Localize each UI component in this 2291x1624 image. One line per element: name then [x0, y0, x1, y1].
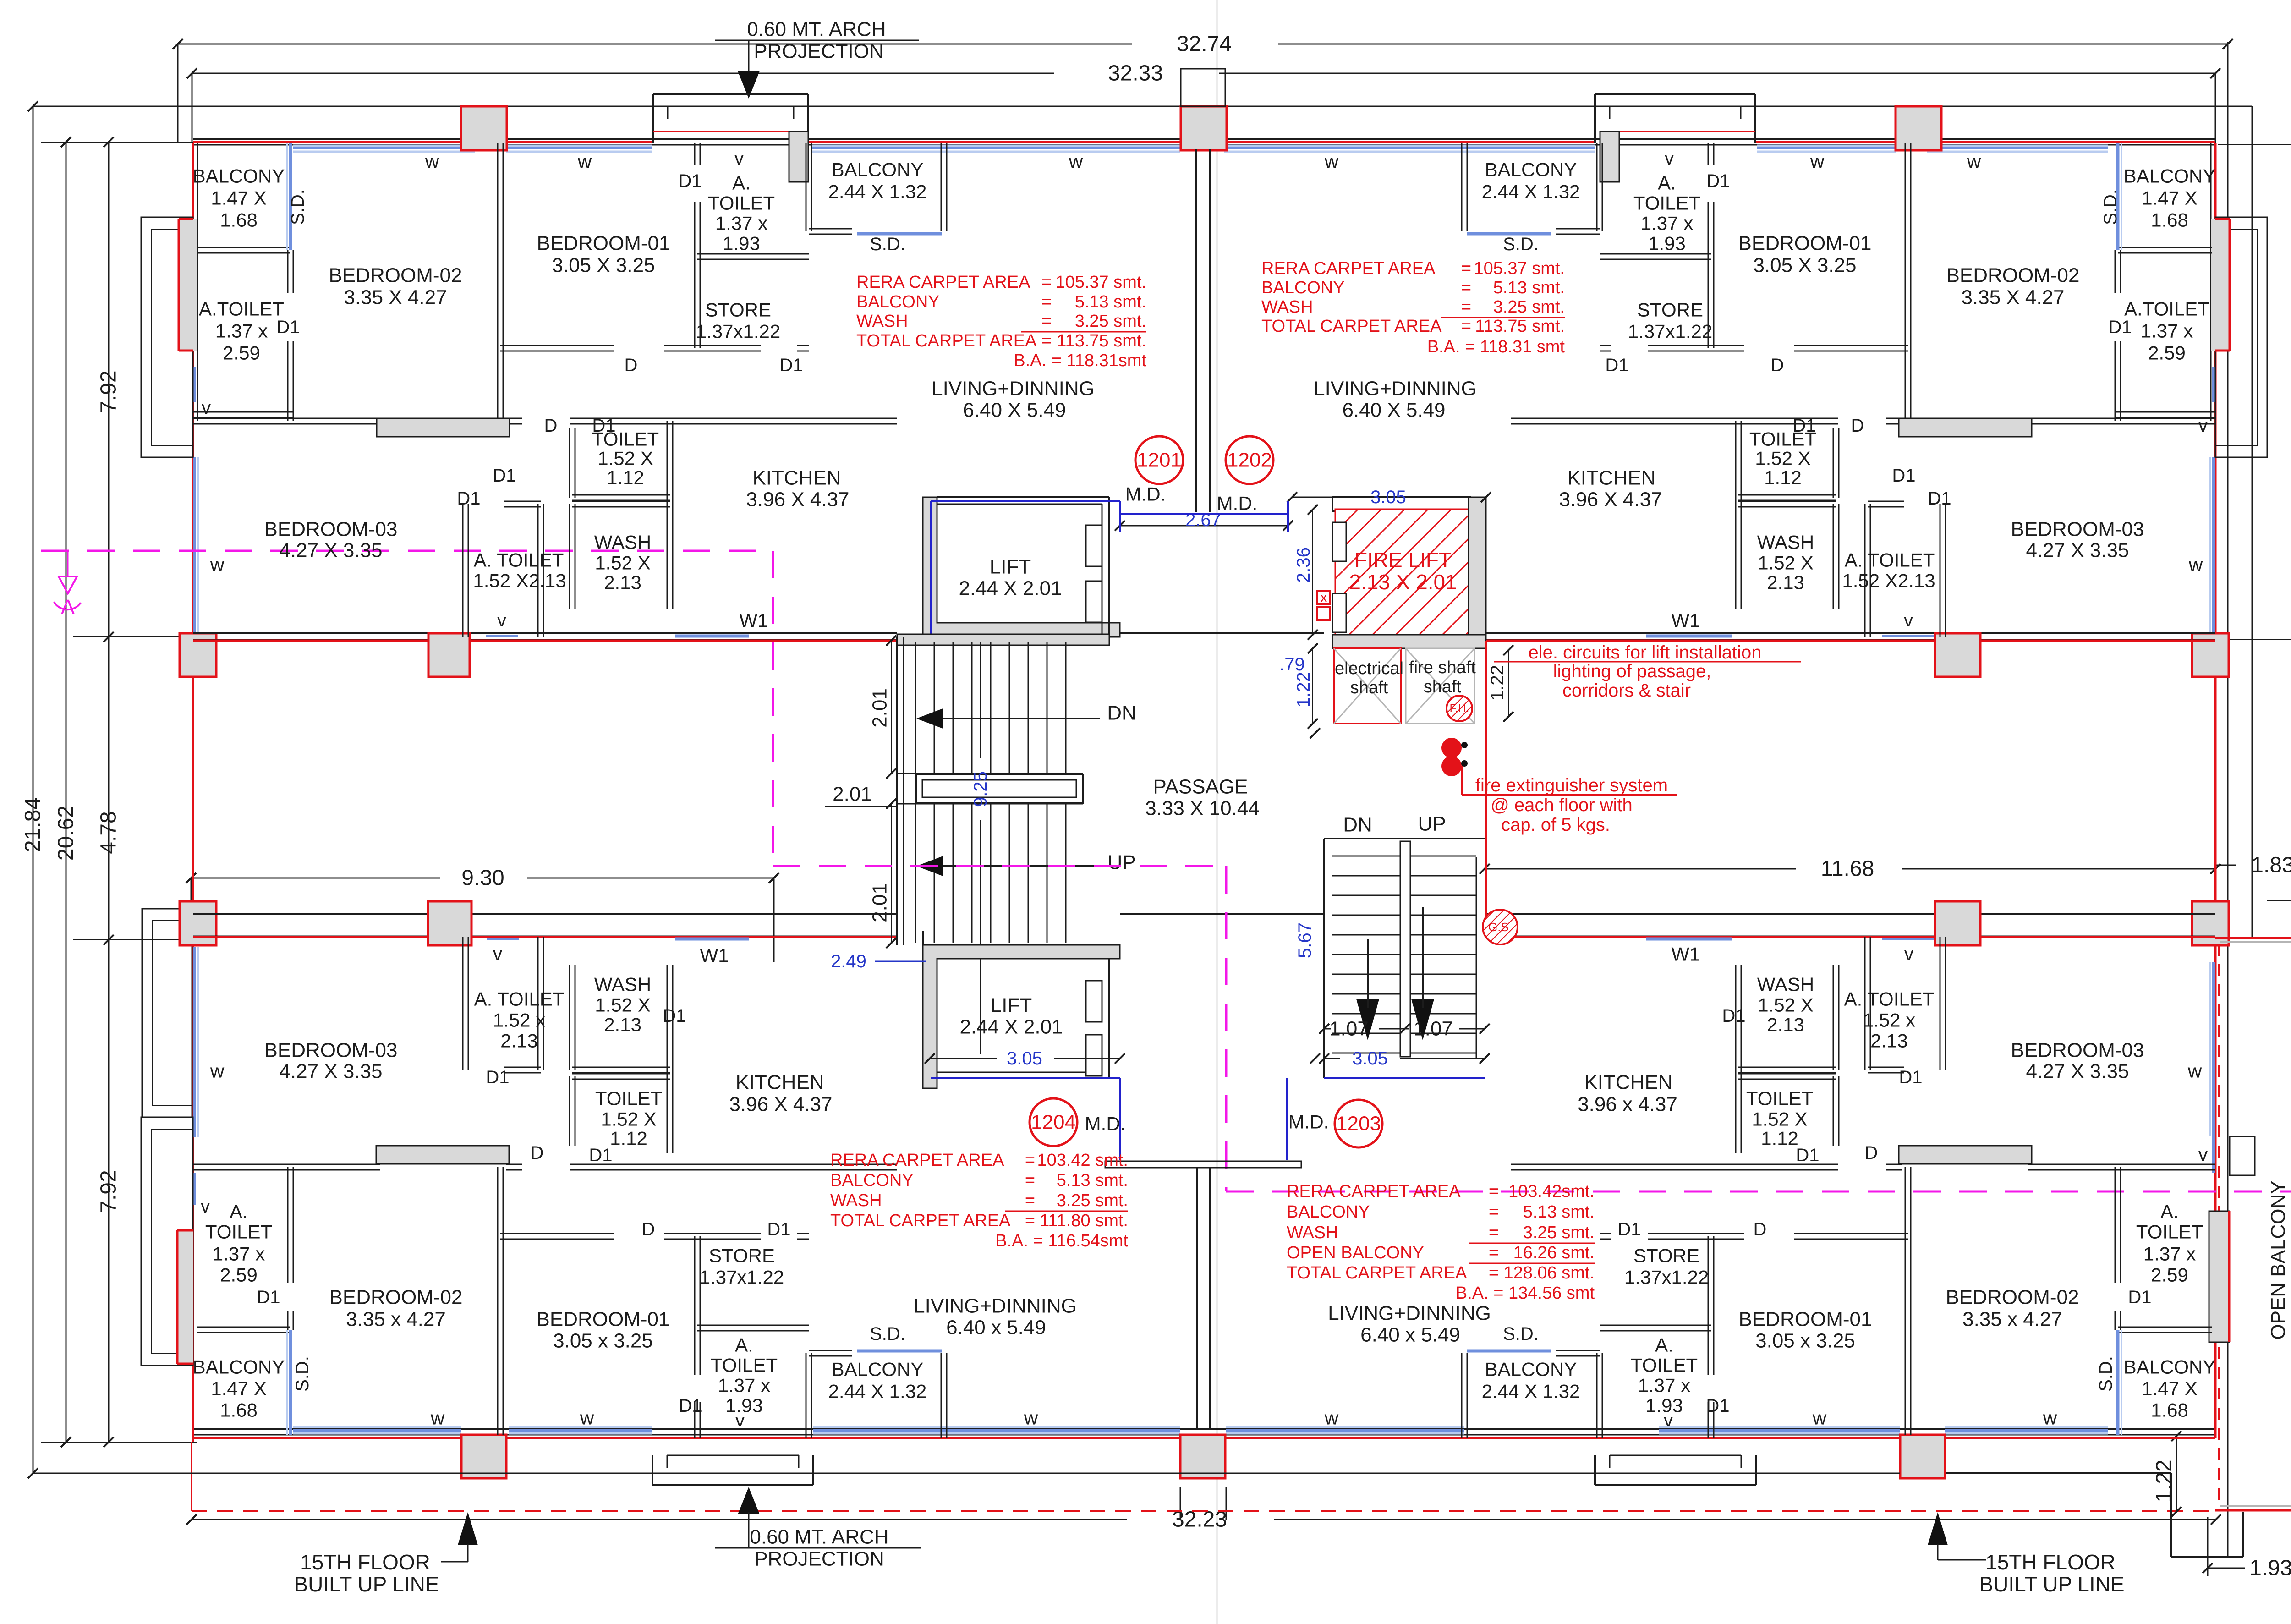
svg-text:1.37 x: 1.37 x — [2141, 320, 2193, 342]
svg-text:BEDROOM-01: BEDROOM-01 — [537, 232, 670, 255]
svg-text:3.33 X 10.44: 3.33 X 10.44 — [1145, 797, 1260, 820]
svg-text:1.68: 1.68 — [2151, 209, 2188, 231]
dim 1.93 bottom right — [2208, 1568, 2245, 1569]
svg-text:=: = — [1489, 1182, 1499, 1201]
dim 11.68 corridor-to-right-wall — [1485, 868, 1796, 870]
svg-text:w: w — [1967, 151, 1981, 172]
DN arrow upper flight — [935, 718, 1100, 719]
stepped projection box top right — [1595, 93, 1755, 95]
top passage M.D. walls blue — [1120, 513, 1288, 515]
svg-text:6.40 x 5.49: 6.40 x 5.49 — [1360, 1324, 1460, 1346]
svg-text:B.A. = 134.56 smt: B.A. = 134.56 smt — [1456, 1284, 1595, 1303]
svg-text:BALCONY: BALCONY — [2124, 165, 2216, 187]
svg-text:v: v — [201, 1196, 210, 1217]
svg-text:A.: A. — [735, 1334, 753, 1356]
svg-text:w: w — [210, 1060, 225, 1082]
svg-text:4.27 X 3.35: 4.27 X 3.35 — [279, 1060, 382, 1083]
svg-text:A.: A. — [732, 172, 751, 194]
svg-text:2.59: 2.59 — [2148, 342, 2186, 364]
svg-text:v: v — [734, 148, 744, 169]
svg-text:2.13: 2.13 — [1767, 572, 1804, 593]
svg-text:D1: D1 — [678, 171, 702, 191]
svg-text:5.13 smt.: 5.13 smt. — [1493, 278, 1565, 297]
svg-text:1.37x1.22: 1.37x1.22 — [696, 321, 781, 342]
svg-text:=: = — [1025, 1191, 1035, 1210]
svg-text:2.01: 2.01 — [869, 883, 891, 922]
svg-text:D1: D1 — [589, 1145, 612, 1165]
svg-text:15TH FLOOR: 15TH FLOOR — [300, 1550, 430, 1574]
svg-text:PROJECTION: PROJECTION — [754, 40, 884, 63]
svg-text:DN: DN — [1107, 702, 1136, 724]
svg-text:D: D — [531, 1143, 544, 1163]
right corridor columns — [2192, 633, 2229, 677]
svg-text:1.37x1.22: 1.37x1.22 — [1624, 1267, 1709, 1288]
svg-text:=: = — [1461, 259, 1471, 278]
lintel bar — [1899, 418, 2032, 437]
svg-text:D1: D1 — [2128, 1287, 2151, 1307]
svg-text:=: = — [1489, 1263, 1499, 1283]
svg-text:BEDROOM-03: BEDROOM-03 — [264, 518, 398, 541]
svg-text:3.25 smt.: 3.25 smt. — [1493, 297, 1565, 317]
svg-text:KITCHEN: KITCHEN — [752, 467, 841, 489]
svg-text:=: = — [1489, 1223, 1499, 1242]
corridor bottom wall windows — [675, 938, 749, 941]
svg-text:1.52 X2.13: 1.52 X2.13 — [1842, 570, 1935, 592]
svg-text:1.68: 1.68 — [2151, 1399, 2188, 1421]
svg-text:BALCONY: BALCONY — [832, 1359, 924, 1380]
svg-text:w: w — [577, 151, 592, 172]
svg-text:1.12: 1.12 — [607, 467, 644, 488]
svg-text:0.60 MT. ARCH: 0.60 MT. ARCH — [747, 18, 886, 41]
svg-text:D: D — [1754, 1219, 1767, 1240]
svg-text:1.52 X: 1.52 X — [1752, 1108, 1807, 1130]
svg-text:OPEN BALCONY: OPEN BALCONY — [1287, 1243, 1424, 1262]
svg-text:1.52 x: 1.52 x — [493, 1010, 545, 1031]
corridor top wall v windows — [486, 635, 518, 637]
svg-text:TOTAL CARPET AREA: TOTAL CARPET AREA — [1261, 317, 1442, 336]
svg-text:=: = — [1489, 1243, 1499, 1262]
svg-text:5.13 smt.: 5.13 smt. — [1075, 292, 1146, 312]
svg-text:11.68: 11.68 — [1821, 857, 1874, 881]
svg-text:TOILET: TOILET — [2136, 1221, 2203, 1243]
outer site border — [33, 106, 2252, 107]
svg-text:1.37 x: 1.37 x — [718, 1375, 770, 1396]
svg-text:lighting of passage,: lighting of passage, — [1553, 661, 1711, 681]
svg-text:W1: W1 — [700, 945, 729, 966]
svg-text:UP: UP — [1107, 851, 1135, 874]
svg-text:1.37 x: 1.37 x — [213, 1243, 265, 1265]
svg-text:D1: D1 — [1899, 1067, 1922, 1087]
svg-text:1.52 X2.13: 1.52 X2.13 — [473, 570, 566, 592]
section marker A left — [59, 576, 77, 593]
svg-text:RERA CARPET AREA: RERA CARPET AREA — [1261, 259, 1436, 278]
svg-text:32.74: 32.74 — [1177, 32, 1232, 56]
svg-text:B.A. = 118.31smt: B.A. = 118.31smt — [1014, 351, 1146, 370]
stepped projection box bottom left — [652, 1484, 813, 1486]
G.S. hatched circle — [1483, 910, 1518, 944]
lintel bar — [377, 418, 510, 437]
svg-text:w: w — [580, 1407, 594, 1429]
svg-text:1.68: 1.68 — [220, 209, 258, 231]
svg-text:TOILET: TOILET — [708, 192, 775, 214]
svg-text:D1: D1 — [257, 1287, 280, 1307]
svg-text:1.47 X: 1.47 X — [211, 187, 266, 209]
fire stair centre rail — [1400, 841, 1410, 1057]
svg-text:113.75 smt.: 113.75 smt. — [1057, 331, 1146, 351]
svg-text:103.42 smt.: 103.42 smt. — [1037, 1151, 1128, 1170]
svg-text:20.62: 20.62 — [54, 806, 78, 861]
svg-text:w: w — [1812, 1407, 1827, 1429]
svg-text:6.40 X 5.49: 6.40 X 5.49 — [963, 399, 1066, 422]
svg-text:RERA CARPET AREA: RERA CARPET AREA — [830, 1151, 1004, 1170]
page centre fold line — [1217, 0, 1218, 1624]
svg-text:v: v — [497, 610, 506, 631]
svg-text:5.67: 5.67 — [1295, 922, 1315, 958]
svg-text:KITCHEN: KITCHEN — [1567, 467, 1655, 489]
svg-text:113.75 smt.: 113.75 smt. — [1475, 317, 1565, 336]
svg-text:BEDROOM-02: BEDROOM-02 — [1946, 1286, 2079, 1309]
svg-text:D: D — [1865, 1143, 1878, 1163]
svg-text:S.D.: S.D. — [2100, 189, 2121, 225]
left stair chamber walls — [896, 637, 898, 945]
bottom party wall between living rooms — [1105, 1161, 1301, 1168]
svg-text:2.13: 2.13 — [604, 1014, 641, 1036]
dim 3.05 blue fire lift top — [1292, 497, 1356, 498]
UP arrow lower flight — [935, 865, 1100, 867]
svg-text:=: = — [1041, 273, 1052, 292]
vent box right wall flat 1203 — [2230, 1136, 2255, 1175]
svg-text:M.D.: M.D. — [1288, 1111, 1329, 1133]
fire lift right wall — [1469, 497, 1486, 635]
svg-text:D1: D1 — [1605, 355, 1628, 375]
lift blue outline upper — [931, 500, 1120, 502]
lift blue outline lower — [931, 1077, 1120, 1079]
flat 1203 partition walls — [1735, 965, 1737, 1153]
svg-text:BALCONY: BALCONY — [1485, 1359, 1577, 1380]
svg-text:3.35 x 4.27: 3.35 x 4.27 — [1962, 1308, 2062, 1331]
svg-text:WASH: WASH — [830, 1191, 882, 1210]
svg-text:2.13: 2.13 — [1870, 1030, 1908, 1052]
svg-text:electrical: electrical — [1335, 659, 1403, 678]
svg-text:=: = — [1041, 331, 1052, 351]
svg-text:D1: D1 — [663, 1006, 686, 1026]
svg-text:BEDROOM-02: BEDROOM-02 — [1946, 264, 2080, 287]
corridor bottom columns — [428, 901, 471, 945]
dim 2.67 blue passage top — [1120, 525, 1288, 527]
left wall windows — [193, 367, 196, 402]
dim 3.05 blue lower lift — [930, 1058, 997, 1059]
svg-text:1.22: 1.22 — [1293, 672, 1314, 708]
svg-text:F.H.: F.H. — [1450, 702, 1469, 715]
svg-text:2.44 X 1.32: 2.44 X 1.32 — [1482, 181, 1580, 203]
svg-text:1203: 1203 — [1336, 1113, 1381, 1135]
svg-text:BEDROOM-03: BEDROOM-03 — [2011, 1039, 2144, 1062]
svg-text:0.60 MT. ARCH: 0.60 MT. ARCH — [750, 1526, 888, 1548]
corridor top wall windows W1 — [675, 635, 749, 638]
svg-text:BALCONY: BALCONY — [193, 165, 285, 187]
svg-text:LIVING+DINNING: LIVING+DINNING — [1328, 1302, 1491, 1325]
upper lift door jambs — [1086, 525, 1102, 566]
lintel bar — [1899, 1146, 2032, 1164]
unit circles — [1135, 436, 1183, 484]
svg-text:16.26 smt.: 16.26 smt. — [1513, 1243, 1595, 1262]
svg-text:TOTAL CARPET AREA: TOTAL CARPET AREA — [830, 1211, 1011, 1230]
fire lift door jambs — [1332, 522, 1346, 561]
svg-text:BALCONY: BALCONY — [856, 292, 940, 312]
dim 32.23 bottom — [192, 1519, 1127, 1520]
left stair treads lower flight — [915, 804, 916, 943]
svg-text:B.A. = 118.31 smt: B.A. = 118.31 smt — [1427, 337, 1565, 357]
svg-text:v: v — [202, 398, 211, 418]
lintel bar — [376, 1146, 509, 1164]
svg-text:1204: 1204 — [1031, 1111, 1076, 1134]
right wall windows — [2212, 367, 2215, 402]
svg-text:cap. of 5 kgs.: cap. of 5 kgs. — [1501, 815, 1610, 835]
svg-text:BEDROOM-02: BEDROOM-02 — [329, 1286, 463, 1309]
svg-text:.79: .79 — [1279, 654, 1305, 675]
flat 1202 partition walls — [2118, 247, 2212, 248]
svg-text:2.44 X 1.32: 2.44 X 1.32 — [1482, 1381, 1580, 1402]
svg-text:WASH: WASH — [594, 974, 651, 995]
svg-text:A.TOILET: A.TOILET — [2124, 298, 2209, 320]
svg-text:PROJECTION: PROJECTION — [754, 1548, 884, 1570]
svg-text:=: = — [1041, 292, 1052, 312]
top party wall between living rooms — [1195, 149, 1197, 512]
red fire line right side — [1485, 641, 1487, 937]
svg-text:M.D.: M.D. — [1125, 483, 1166, 505]
svg-text:1.52 X: 1.52 X — [1755, 448, 1810, 469]
svg-text:W1: W1 — [1672, 610, 1700, 631]
svg-text:1.47 X: 1.47 X — [2142, 1378, 2197, 1399]
svg-text:2.59: 2.59 — [2151, 1264, 2188, 1286]
svg-text:w: w — [1810, 151, 1825, 172]
svg-text:1.12: 1.12 — [610, 1128, 647, 1149]
svg-text:TOILET: TOILET — [1631, 1355, 1698, 1376]
svg-text:TOTAL CARPET AREA: TOTAL CARPET AREA — [1287, 1263, 1467, 1283]
flat 1204 partition walls — [667, 965, 668, 1153]
svg-text:D1: D1 — [1617, 1219, 1641, 1240]
svg-text:3.05: 3.05 — [1007, 1048, 1042, 1069]
svg-text:3.05 X 3.25: 3.05 X 3.25 — [1753, 254, 1856, 277]
bottom wall window band — [293, 1429, 461, 1432]
svg-text:3.25 smt.: 3.25 smt. — [1075, 312, 1146, 331]
svg-text:A.: A. — [2160, 1201, 2179, 1223]
svg-text:D1: D1 — [2108, 317, 2132, 337]
corridor bottom wall (north wall of lower flats) — [193, 913, 897, 915]
svg-text:2.59: 2.59 — [223, 342, 260, 364]
svg-text:D1: D1 — [1796, 1145, 1819, 1165]
svg-text:1.52 X: 1.52 X — [1758, 994, 1813, 1016]
svg-text:KITCHEN: KITCHEN — [1584, 1071, 1672, 1094]
svg-text:D: D — [1771, 355, 1784, 375]
svg-text:x: x — [1321, 590, 1327, 605]
left wall — [192, 143, 194, 637]
fire stair blue base — [1324, 1077, 1485, 1079]
svg-text:1.07: 1.07 — [1414, 1018, 1453, 1040]
svg-text:=: = — [1025, 1171, 1035, 1190]
svg-text:M.D.: M.D. — [1085, 1113, 1126, 1135]
svg-text:BEDROOM-01: BEDROOM-01 — [537, 1308, 670, 1331]
svg-text:1.37 x: 1.37 x — [215, 320, 268, 342]
svg-text:BALCONY: BALCONY — [1261, 278, 1345, 297]
svg-text:D1: D1 — [1928, 488, 1951, 509]
A-toilet projection column right (flat 1203) — [2209, 1211, 2229, 1342]
dim 32.33 — [192, 73, 1054, 74]
svg-text:shaft: shaft — [1350, 678, 1388, 697]
svg-text:4.27 X 3.35: 4.27 X 3.35 — [2026, 1060, 2129, 1083]
dim chain left 20.62 — [66, 142, 67, 1442]
electrical shaft — [1334, 648, 1401, 724]
svg-text:3.25 smt.: 3.25 smt. — [1057, 1191, 1128, 1210]
svg-text:3.05: 3.05 — [1370, 487, 1406, 507]
svg-text:1.93: 1.93 — [2249, 1556, 2291, 1580]
svg-text:S.D.: S.D. — [292, 1356, 312, 1392]
svg-text:A. TOILET: A. TOILET — [1844, 988, 1935, 1010]
svg-text:3.35 X 4.27: 3.35 X 4.27 — [344, 286, 447, 309]
svg-text:1.37x1.22: 1.37x1.22 — [700, 1267, 784, 1288]
built up line red dashed bottom — [191, 1442, 192, 1511]
fire stair dims 1.07 — [1324, 1028, 1331, 1030]
svg-text:M.D.: M.D. — [1217, 493, 1258, 514]
svg-text:w: w — [2043, 1407, 2057, 1429]
svg-text:BEDROOM-01: BEDROOM-01 — [1738, 232, 1872, 255]
svg-text:S.D.: S.D. — [2096, 1356, 2116, 1392]
red dots fire hydrant — [1441, 738, 1462, 758]
bottom wall — [193, 1428, 2215, 1430]
svg-text:S.D.: S.D. — [288, 189, 308, 225]
svg-text:3.96 X 4.37: 3.96 X 4.37 — [746, 488, 849, 511]
svg-text:STORE: STORE — [1637, 299, 1703, 321]
svg-text:w: w — [1324, 1407, 1339, 1429]
svg-text:6.40 x 5.49: 6.40 x 5.49 — [946, 1317, 1046, 1339]
svg-text:ele. circuits for lift install: ele. circuits for lift installation — [1528, 642, 1761, 663]
svg-text:KITCHEN: KITCHEN — [735, 1071, 824, 1094]
fire stair arrows — [1356, 999, 1379, 1040]
svg-text:2.44 X 1.32: 2.44 X 1.32 — [828, 1381, 927, 1402]
corridor top wall (south wall of upper flats) — [193, 632, 897, 634]
svg-text:W1: W1 — [1672, 944, 1700, 965]
bottom plinth line — [33, 1473, 652, 1474]
svg-text:D1: D1 — [457, 488, 480, 509]
svg-text:WASH: WASH — [1757, 532, 1814, 553]
svg-text:STORE: STORE — [1633, 1245, 1699, 1267]
svg-text:1.07: 1.07 — [1329, 1018, 1369, 1040]
svg-text:2.36: 2.36 — [1293, 547, 1314, 583]
svg-text:=: = — [1461, 278, 1471, 297]
svg-text:A. TOILET: A. TOILET — [474, 988, 565, 1010]
svg-text:1.52 X: 1.52 X — [1758, 552, 1813, 574]
svg-text:OPEN BALCONY: OPEN BALCONY — [2267, 1180, 2290, 1339]
svg-text:1201: 1201 — [1137, 449, 1182, 472]
svg-text:15TH FLOOR: 15TH FLOOR — [1985, 1550, 2116, 1574]
small red hydrant symbols left of fire lift — [1317, 591, 1330, 604]
svg-text:BALCONY: BALCONY — [1287, 1202, 1370, 1222]
svg-text:TOTAL CARPET AREA: TOTAL CARPET AREA — [856, 331, 1037, 351]
svg-text:fire shaft: fire shaft — [1409, 658, 1476, 677]
svg-text:v: v — [1904, 944, 1913, 964]
svg-text:shaft: shaft — [1424, 677, 1462, 697]
svg-text:=: = — [1025, 1151, 1035, 1170]
svg-text:A. TOILET: A. TOILET — [474, 549, 564, 571]
svg-text:B.A. = 116.54smt: B.A. = 116.54smt — [995, 1231, 1128, 1251]
left stair mid landing — [916, 774, 1083, 803]
svg-text:1.52 x: 1.52 x — [1863, 1010, 1915, 1031]
svg-text:BALCONY: BALCONY — [830, 1171, 914, 1190]
svg-text:3.25 smt.: 3.25 smt. — [1523, 1223, 1595, 1242]
bottom wall columns — [461, 1435, 506, 1478]
svg-text:w: w — [425, 151, 439, 172]
svg-text:S.D.: S.D. — [870, 1324, 905, 1344]
svg-text:LIFT: LIFT — [990, 556, 1031, 578]
F.H. hatched circle — [1447, 696, 1472, 721]
svg-text:WASH: WASH — [1287, 1223, 1338, 1242]
stepped projection box top left — [653, 93, 808, 95]
dim 3.05 blue fire stair bottom — [1324, 1058, 1340, 1059]
svg-text:BEDROOM-03: BEDROOM-03 — [264, 1039, 398, 1062]
svg-text:1.52 X: 1.52 X — [595, 994, 650, 1016]
svg-text:w: w — [2187, 1060, 2202, 1082]
svg-text:103.42smt.: 103.42smt. — [1508, 1182, 1595, 1201]
svg-text:6.40 X 5.49: 6.40 X 5.49 — [1342, 399, 1445, 422]
svg-text:105.37 smt.: 105.37 smt. — [1055, 273, 1146, 292]
svg-text:v: v — [1904, 610, 1913, 631]
svg-text:A.TOILET: A.TOILET — [199, 298, 284, 320]
svg-text:1202: 1202 — [1227, 449, 1272, 472]
svg-text:D1: D1 — [486, 1067, 509, 1087]
svg-text:=: = — [1041, 312, 1052, 331]
svg-text:1.37 x: 1.37 x — [1641, 213, 1693, 234]
svg-text:5.13 smt.: 5.13 smt. — [1523, 1202, 1595, 1222]
svg-text:BEDROOM-01: BEDROOM-01 — [1739, 1308, 1872, 1331]
svg-text:D1: D1 — [493, 466, 516, 486]
svg-text:LIVING+DINNING: LIVING+DINNING — [1314, 378, 1477, 400]
flat 1201 partition walls — [197, 247, 290, 248]
svg-text:BUILT UP LINE: BUILT UP LINE — [1979, 1572, 2124, 1596]
svg-text:1.37x1.22: 1.37x1.22 — [1628, 321, 1713, 342]
svg-text:1.93: 1.93 — [723, 233, 760, 254]
svg-text:PASSAGE: PASSAGE — [1153, 776, 1248, 798]
left balcony protrusion top — [141, 217, 193, 457]
svg-text:D1: D1 — [1792, 416, 1816, 436]
svg-text:1.52 X: 1.52 X — [601, 1108, 656, 1130]
svg-text:D: D — [642, 1219, 655, 1240]
svg-text:A: A — [61, 595, 75, 619]
svg-text:3.05 x 3.25: 3.05 x 3.25 — [553, 1330, 653, 1352]
svg-text:D1: D1 — [1706, 1396, 1729, 1416]
svg-text:=: = — [1461, 317, 1471, 336]
dim 32.74 top — [178, 44, 1132, 45]
svg-text:3.05 X 3.25: 3.05 X 3.25 — [552, 254, 655, 277]
svg-text:w: w — [2188, 554, 2203, 576]
lower lift shaft walls — [923, 945, 1120, 1088]
svg-text:D1: D1 — [1892, 466, 1915, 486]
svg-text:D: D — [625, 355, 638, 375]
svg-text:RERA CARPET AREA: RERA CARPET AREA — [1287, 1182, 1461, 1201]
svg-text:v: v — [1664, 1410, 1673, 1431]
svg-text:A.: A. — [1655, 1334, 1673, 1356]
svg-text:3.05 x 3.25: 3.05 x 3.25 — [1755, 1330, 1855, 1352]
left protrusion middle — [142, 909, 192, 1117]
svg-text:D: D — [544, 416, 558, 436]
svg-text:BALCONY: BALCONY — [832, 159, 924, 181]
svg-text:2.59: 2.59 — [220, 1264, 258, 1286]
svg-text:1.68: 1.68 — [220, 1399, 258, 1421]
dim 1.83 open balcony width — [2215, 865, 2236, 866]
svg-text:LIVING+DINNING: LIVING+DINNING — [914, 1295, 1077, 1317]
svg-text:1.12: 1.12 — [1761, 1128, 1798, 1149]
svg-text:32.33: 32.33 — [1108, 61, 1163, 86]
svg-text:2.13: 2.13 — [500, 1030, 538, 1052]
